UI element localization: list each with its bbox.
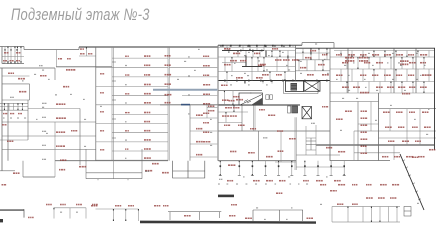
wall [417, 69, 419, 82]
room label [224, 64, 231, 66]
column [316, 80, 318, 82]
wall [379, 108, 436, 110]
room label [396, 111, 403, 113]
wall [415, 48, 417, 93]
room label [398, 126, 404, 128]
dimension text [315, 43, 317, 44]
wall [306, 60, 308, 71]
room label [256, 77, 263, 79]
stall jamb [265, 165, 267, 167]
wall [218, 104, 300, 106]
room label [3, 60, 7, 61]
dimension text [266, 69, 268, 70]
room label [88, 53, 92, 54]
dimension text [275, 183, 277, 184]
stall foot [343, 175, 346, 177]
dimension text [60, 212, 62, 213]
column/jamb [318, 48, 319, 50]
room label [3, 113, 7, 114]
column/jamb [310, 53, 311, 55]
room label [165, 94, 172, 96]
wall [54, 207, 86, 209]
wall [263, 57, 265, 72]
dimension text [219, 179, 222, 180]
wall [27, 100, 29, 140]
door tick [112, 118, 116, 120]
wall [14, 47, 16, 64]
room label [342, 62, 348, 64]
room label [165, 83, 171, 85]
wall [259, 51, 261, 58]
column/jamb [322, 69, 323, 71]
wall [251, 161, 253, 176]
column/jamb [395, 69, 396, 71]
column/jamb [252, 161, 253, 163]
room label [66, 69, 75, 71]
room label [152, 163, 159, 165]
wall [168, 47, 170, 161]
stall jamb [252, 165, 254, 167]
wall [262, 66, 295, 68]
column/jamb [125, 209, 126, 211]
wall [291, 161, 293, 176]
room label [420, 54, 427, 56]
wall [2, 75, 30, 77]
column/jamb [371, 207, 372, 209]
room label [227, 180, 233, 182]
room label [352, 184, 357, 186]
room label [238, 125, 245, 126]
room label [283, 59, 290, 61]
wall [218, 111, 248, 113]
wall [96, 141, 168, 143]
room label [100, 73, 104, 74]
room label [125, 93, 129, 94]
ramp room with stair [239, 93, 263, 105]
wall [389, 109, 391, 131]
wall [69, 208, 71, 219]
dimension text [426, 134, 428, 135]
column [282, 80, 284, 82]
room label [396, 54, 403, 56]
wall [2, 83, 30, 85]
dimension text [188, 75, 190, 76]
wall [330, 160, 390, 162]
column [292, 80, 294, 82]
wall [362, 207, 364, 223]
elevator shaft E2 cross [304, 81, 320, 91]
room label [248, 152, 255, 153]
wall [340, 69, 342, 82]
dimension text [177, 79, 179, 80]
room label [326, 147, 332, 149]
dimension text [36, 119, 37, 120]
room label [278, 150, 284, 152]
wall [252, 51, 254, 58]
wall [247, 45, 249, 47]
room label [56, 145, 65, 147]
dimension text [10, 97, 14, 98]
room label [203, 113, 209, 114]
wall [315, 125, 317, 155]
dimension text [83, 99, 85, 100]
dimension text [286, 219, 288, 220]
room label [203, 103, 210, 104]
dimension text [24, 117, 26, 118]
dimension text [3, 117, 5, 118]
room label [420, 62, 426, 64]
dimension text [340, 130, 342, 131]
column/jamb [257, 57, 258, 59]
wall [406, 69, 408, 82]
wall [96, 104, 168, 106]
room label [275, 59, 281, 61]
wall [190, 143, 218, 145]
wall [401, 57, 403, 69]
wall [17, 47, 19, 64]
wall [412, 82, 414, 94]
wall [330, 161, 332, 176]
wall [390, 57, 392, 69]
room label [58, 58, 62, 59]
room label [259, 109, 265, 110]
wall [346, 82, 348, 94]
wall [257, 57, 259, 72]
column [239, 45, 241, 47]
column/jamb [310, 58, 311, 60]
room label [4, 52, 9, 53]
room label [402, 93, 410, 95]
wall [207, 107, 218, 109]
room label [100, 130, 104, 131]
wall [347, 48, 349, 93]
room label [80, 48, 84, 49]
door tick [112, 61, 116, 63]
dimension text [404, 90, 406, 91]
dimension text [145, 171, 149, 172]
column/jamb [284, 79, 285, 81]
wall [287, 57, 289, 72]
room label [79, 166, 86, 168]
dimension text [125, 65, 127, 66]
wall [251, 72, 253, 81]
door tick [112, 80, 116, 82]
stall foot [303, 175, 306, 177]
wall [2, 63, 24, 65]
room label [71, 130, 77, 131]
dimension text [416, 53, 418, 54]
wall [56, 66, 112, 68]
room label [406, 156, 413, 158]
room label [115, 205, 121, 206]
room label [233, 107, 239, 108]
column/jamb [271, 51, 272, 53]
dimension text [250, 92, 251, 93]
room label [372, 74, 378, 76]
wall [224, 57, 226, 72]
wall [242, 45, 244, 50]
room label [125, 112, 130, 113]
room label [144, 102, 151, 104]
dimension text [364, 79, 366, 80]
room label [56, 131, 65, 133]
wall [218, 71, 295, 73]
wall [358, 123, 379, 125]
dimension text [243, 176, 245, 177]
room label [224, 125, 230, 126]
column/jamb [326, 48, 327, 50]
column/jamb [298, 60, 299, 62]
wall [112, 95, 168, 97]
wall [226, 72, 228, 81]
wall [24, 49, 79, 51]
ramp wall stub [218, 195, 234, 198]
ramp wall thick long [140, 221, 316, 224]
room label [360, 92, 369, 94]
wall [222, 62, 246, 64]
wall [347, 207, 349, 223]
room label [359, 57, 368, 59]
room label [337, 203, 343, 205]
wall [218, 160, 296, 162]
wall [318, 53, 320, 60]
wall [370, 102, 372, 132]
column/jamb [226, 72, 227, 74]
stall foot [277, 175, 280, 177]
room label [378, 197, 385, 199]
wall [334, 50, 435, 52]
dimension text [42, 131, 46, 132]
room label [16, 60, 20, 61]
room label [125, 148, 128, 149]
wall [401, 82, 403, 94]
room label [144, 64, 150, 66]
room label [56, 103, 65, 105]
room label [279, 180, 285, 182]
room label [292, 59, 299, 61]
dimension text [55, 94, 57, 95]
wall [301, 43, 303, 46]
wall [326, 53, 328, 60]
wall [54, 122, 56, 177]
wall [96, 66, 168, 68]
wall [0, 46, 24, 48]
column/jamb [4, 109, 5, 111]
wall [169, 57, 218, 59]
room label [272, 48, 278, 50]
room label [429, 149, 435, 151]
wall [219, 161, 221, 176]
wall [395, 51, 397, 58]
wall [96, 86, 168, 88]
room label [7, 141, 13, 142]
wall [218, 122, 242, 124]
room label [100, 149, 104, 150]
dimension text [244, 55, 246, 56]
room label [422, 111, 428, 113]
wall [278, 161, 280, 176]
dimension text [324, 59, 325, 60]
wall (dark) mid partition [242, 66, 262, 68]
wall [190, 156, 218, 158]
column [240, 50, 242, 52]
wall [428, 51, 430, 58]
column/jamb [279, 56, 280, 58]
room label [409, 86, 415, 88]
dimension text [265, 183, 267, 184]
dimension text [390, 105, 392, 106]
column/jamb [373, 51, 374, 53]
stall foot [238, 175, 241, 177]
column/jamb [225, 112, 226, 114]
column/jamb [384, 51, 385, 53]
wall (dark) upper partition [222, 50, 264, 52]
room label [10, 60, 14, 61]
dimension text [398, 62, 400, 63]
room label [203, 122, 209, 123]
room label [266, 180, 273, 182]
room label [330, 190, 337, 191]
dimension text [327, 73, 329, 74]
dimension text [46, 133, 48, 134]
dimension text [210, 145, 212, 146]
room label [307, 218, 314, 219]
dimension text [414, 119, 416, 120]
wall [412, 57, 414, 69]
room label [289, 138, 296, 139]
dimension text [246, 183, 248, 184]
wall [224, 91, 226, 105]
room label [125, 56, 129, 57]
wall [22, 161, 24, 177]
dimension text [348, 75, 350, 76]
column/jamb [396, 207, 397, 209]
room label [208, 110, 214, 112]
room label [144, 130, 150, 132]
dimension text [84, 119, 86, 120]
wall [354, 130, 436, 132]
wall [280, 131, 282, 162]
wall [112, 114, 168, 116]
wall [20, 47, 22, 64]
column/jamb [53, 208, 54, 210]
dimension text [76, 212, 78, 213]
room label [154, 205, 160, 206]
room label [16, 52, 20, 53]
wall highlighted corridor [153, 89, 218, 91]
dimension text [344, 65, 346, 66]
column/jamb [17, 109, 18, 111]
wall [112, 150, 168, 152]
room label [80, 53, 85, 54]
wall [263, 45, 265, 50]
column [256, 45, 258, 47]
wall [330, 56, 434, 58]
room label [268, 115, 275, 116]
wall [322, 60, 324, 71]
dimension text [300, 73, 302, 74]
room label [334, 180, 341, 182]
column/jamb [7, 62, 8, 64]
column/jamb [395, 51, 396, 53]
dimension text [392, 53, 394, 54]
wall [85, 208, 87, 219]
column/jamb [14, 47, 15, 49]
room label [376, 86, 383, 88]
wall [329, 48, 331, 80]
wall [379, 207, 381, 223]
column/jamb [351, 56, 352, 58]
dimension text [428, 109, 429, 110]
room label [18, 113, 22, 114]
dimension text [365, 87, 367, 88]
wall [314, 60, 316, 71]
parking bay frame [253, 210, 303, 221]
column/jamb [249, 45, 250, 47]
ramp wall left [0, 209, 24, 217]
wall [218, 56, 295, 58]
wall [262, 81, 264, 84]
room label [2, 184, 7, 185]
dimension text [17, 117, 19, 118]
column/jamb [138, 209, 139, 211]
wall [96, 159, 168, 161]
room label [408, 74, 414, 76]
room label [398, 86, 405, 88]
dimension text [42, 69, 44, 70]
room label [402, 140, 409, 142]
room label [240, 60, 247, 62]
column/jamb [14, 62, 15, 64]
room label [59, 169, 65, 171]
room label [230, 151, 236, 153]
room label [307, 74, 314, 76]
room label [203, 65, 210, 66]
wall [238, 45, 240, 47]
dimension text [42, 117, 46, 118]
column/jamb [278, 161, 279, 163]
room label [196, 154, 202, 156]
wall [296, 154, 340, 156]
wall [206, 105, 208, 118]
room label [384, 74, 391, 76]
column/jamb [423, 57, 424, 59]
room label [361, 110, 367, 112]
wall [79, 46, 218, 48]
wall [23, 47, 25, 50]
room label [342, 86, 349, 88]
wall [253, 105, 255, 131]
room block B2 [86, 149, 142, 180]
wall [306, 137, 316, 139]
room label [366, 197, 373, 199]
wall [393, 48, 395, 93]
column [248, 45, 250, 47]
wall [351, 51, 353, 58]
wall [393, 145, 395, 160]
room label [345, 57, 354, 59]
wall [310, 48, 312, 53]
wall [218, 46, 296, 48]
column/jamb [245, 56, 246, 58]
wall [365, 145, 367, 153]
column [260, 80, 262, 82]
column/jamb [125, 220, 126, 222]
column [281, 45, 283, 47]
column/jamb [113, 220, 114, 222]
room label [383, 111, 390, 113]
wall [271, 51, 273, 58]
